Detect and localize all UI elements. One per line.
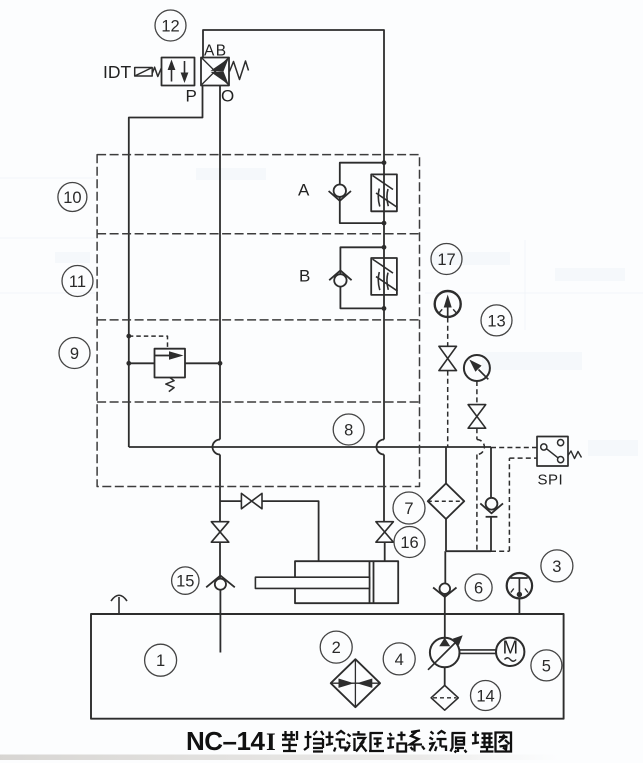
node: throttle B top dot: [382, 245, 387, 250]
node: throttle A top dot: [382, 160, 387, 165]
svg-text:3: 3: [552, 558, 561, 576]
pump discharge to check valve 6: [444, 551, 446, 583]
valve 12 crossed arrows in right box: [202, 58, 229, 85]
svg-text:8: 8: [344, 422, 353, 440]
label circle 8: [333, 414, 364, 445]
throttle A adjuster diagonals: [373, 176, 398, 208]
wire: return line into tank: [219, 590, 221, 653]
svg-text:A: A: [204, 42, 215, 59]
relief valve pilot dashed line: [129, 336, 168, 349]
液: [346, 731, 367, 752]
svg-text:A: A: [298, 181, 310, 200]
wire hop: throttle line jumps return line 8: [377, 440, 384, 455]
pump suction: [444, 667, 446, 686]
throttle valve A box: [371, 174, 397, 211]
suction strainer 14: [431, 685, 458, 710]
tank breather: [111, 595, 127, 614]
gauge shutoff valve for 13: [468, 405, 486, 429]
valve 12 solenoid symbol: [135, 68, 153, 77]
svg-text:11: 11: [69, 273, 86, 291]
faint page show-through artifacts: [0, 178, 643, 330]
挡: [304, 731, 324, 752]
bypass line from line 8 corner: [490, 447, 492, 498]
valve 12 right position box: [201, 58, 229, 86]
pump 4 circle: [430, 638, 460, 668]
one-way throttle B: branch and check valve: [340, 247, 384, 308]
原: [451, 733, 467, 753]
wire: relief valve port lines: [129, 362, 220, 364]
block divider under relief section: [97, 401, 419, 403]
pressure gauge 17: [435, 291, 461, 317]
node: relief right port junction dot: [218, 361, 223, 366]
label circle 17: [431, 244, 462, 275]
svg-text:10: 10: [63, 189, 81, 207]
label circle 1: [145, 644, 177, 676]
motor AC wave: [505, 658, 517, 662]
svg-text:NC–14: NC–14: [186, 726, 265, 756]
svg-text:17: 17: [437, 251, 455, 269]
svg-text:5: 5: [542, 657, 551, 675]
relief valve 9 body: [155, 349, 186, 378]
图: [496, 733, 512, 752]
filter 7 inlet line: [445, 447, 447, 483]
svg-text:9: 9: [70, 345, 79, 363]
svg-text:4: 4: [395, 651, 404, 669]
wire: valve A-port riser and top run to throttle line: [203, 30, 384, 163]
svg-text:16: 16: [400, 534, 418, 552]
caption: NC-14 I type wheel-block hydraulic station schematic: [186, 726, 276, 756]
motor coupling double line: [460, 650, 497, 654]
caption pseudo CJK characters: [282, 731, 511, 753]
cylinder piston: [370, 561, 374, 603]
label circle 2: [320, 631, 352, 663]
gauge 13 dashed hop over line 8: [477, 440, 485, 455]
wire: main throttle line through block (A to B): [383, 163, 385, 440]
shutoff valve on return line (vertical bowtie): [211, 522, 229, 543]
pump variable arrow: [428, 640, 458, 670]
wire: valve O-port return line down: [219, 86, 221, 440]
relief valve spring: [166, 378, 174, 392]
check valve 15 (seat above): [215, 579, 226, 590]
label circle 14: [471, 681, 501, 711]
bypass check valve (seat below with bar): [486, 498, 498, 510]
svg-text:IDT: IDT: [103, 62, 132, 82]
gauge shutoff valve for 17: [439, 346, 457, 370]
label circle 16: [394, 527, 425, 558]
wire: cylinder head-side branch: [220, 501, 319, 561]
wire: throttle line to shutoff 16: [383, 455, 385, 522]
valve 12 parallel arrows in left box: [171, 66, 173, 82]
wire: return line shutoff to check 15: [219, 542, 221, 579]
svg-text:2: 2: [332, 639, 341, 657]
one-way throttle A: branch and check valve: [340, 163, 384, 223]
svg-text:1: 1: [156, 652, 165, 670]
label circle 13: [481, 305, 512, 336]
check valve 6: [440, 583, 451, 594]
block divider under section A: [97, 233, 419, 235]
svg-text:I: I: [266, 729, 276, 756]
throttle B restrictor arcs: [378, 272, 388, 290]
svg-text:7: 7: [404, 500, 413, 518]
port and device letter labels: [103, 42, 563, 657]
throttle A restrictor arcs: [378, 189, 388, 207]
bottom scan shadow strip: [0, 755, 560, 761]
check valve of throttle B (seat above): [334, 274, 346, 286]
relief valve arrow: [155, 355, 171, 357]
label circles: [58, 10, 573, 711]
filter 7 diamond: [428, 483, 464, 519]
label circle 12: [155, 10, 186, 41]
label circle 11: [62, 266, 93, 297]
系: [410, 731, 425, 752]
压: [369, 733, 384, 751]
svg-text:O: O: [221, 87, 234, 106]
svg-text:M: M: [503, 637, 518, 658]
wire: return line to shutoff valve: [219, 455, 221, 522]
pump line through tank top: [444, 594, 446, 638]
label circle 5: [531, 650, 562, 681]
junction rail above pump: [446, 550, 491, 552]
wire: valve P-port down, left, and P riser down the block: [129, 86, 203, 448]
solenoid to valve zigzag: [152, 67, 161, 76]
shutoff valve on head branch (horizontal bowtie): [241, 493, 262, 508]
wire: shutoff 16 to cylinder rod port: [384, 542, 386, 561]
svg-text:B: B: [216, 42, 226, 59]
node: relief left port junction dot: [126, 361, 131, 366]
理: [472, 732, 494, 752]
check valve of throttle A (free flow up, seat below): [334, 185, 346, 197]
统: [429, 731, 447, 751]
cylinder body: [295, 561, 398, 603]
svg-text:6: 6: [474, 580, 483, 598]
node: relief pilot tap dot: [126, 334, 131, 339]
svg-text:15: 15: [176, 573, 194, 591]
filter 7 element dashed: [428, 500, 464, 502]
svg-text:13: 13: [487, 312, 505, 330]
label circle 3: [541, 550, 573, 582]
throttle B adjuster diagonals: [373, 259, 398, 291]
shutoff valve 16 on rod line (vertical bowtie): [376, 522, 394, 543]
block divider under section B: [97, 319, 419, 321]
label circle 9: [59, 338, 90, 369]
label circle 10: [58, 183, 87, 212]
label circle 6: [465, 574, 492, 601]
svg-text:B: B: [299, 267, 310, 286]
gauge 17 dashed sense line: [447, 318, 449, 448]
tank outline: [91, 614, 564, 719]
level gauge 2 diamond: [331, 659, 380, 707]
gauge 13 dashed sense line: [476, 381, 478, 551]
SPI spring zigzag: [568, 451, 582, 459]
型: [282, 731, 297, 752]
node: throttle B bottom dot: [382, 306, 387, 311]
wire: line 8 horizontal return/pressure rail: [129, 446, 491, 448]
thermometer 3: [507, 573, 532, 598]
valve 12 return spring: [230, 61, 249, 80]
svg-text:12: 12: [161, 18, 179, 36]
throttle valve B box: [371, 258, 397, 295]
label circle 15: [172, 567, 199, 594]
站: [387, 732, 406, 752]
svg-text:SPI: SPI: [538, 472, 564, 489]
SPI pressure switch box: [537, 437, 568, 467]
pressure gauge 13: [464, 355, 490, 381]
label circle 7: [393, 492, 425, 524]
svg-text:14: 14: [476, 688, 494, 706]
轮: [326, 731, 346, 752]
motor 5 circle: [496, 638, 524, 666]
manifold block dashed boundary: [97, 155, 419, 487]
filter outlet to pump junction: [445, 519, 447, 551]
label circle 4: [383, 643, 415, 675]
cylinder rod: [255, 577, 369, 588]
solenoid valve 12: left position box: [162, 58, 195, 86]
SPI pressure switch dashed lines: [491, 448, 537, 552]
wire hop: return line jumps line 8: [213, 440, 221, 455]
node: throttle A bottom dot: [382, 221, 387, 226]
svg-text:P: P: [186, 87, 197, 106]
